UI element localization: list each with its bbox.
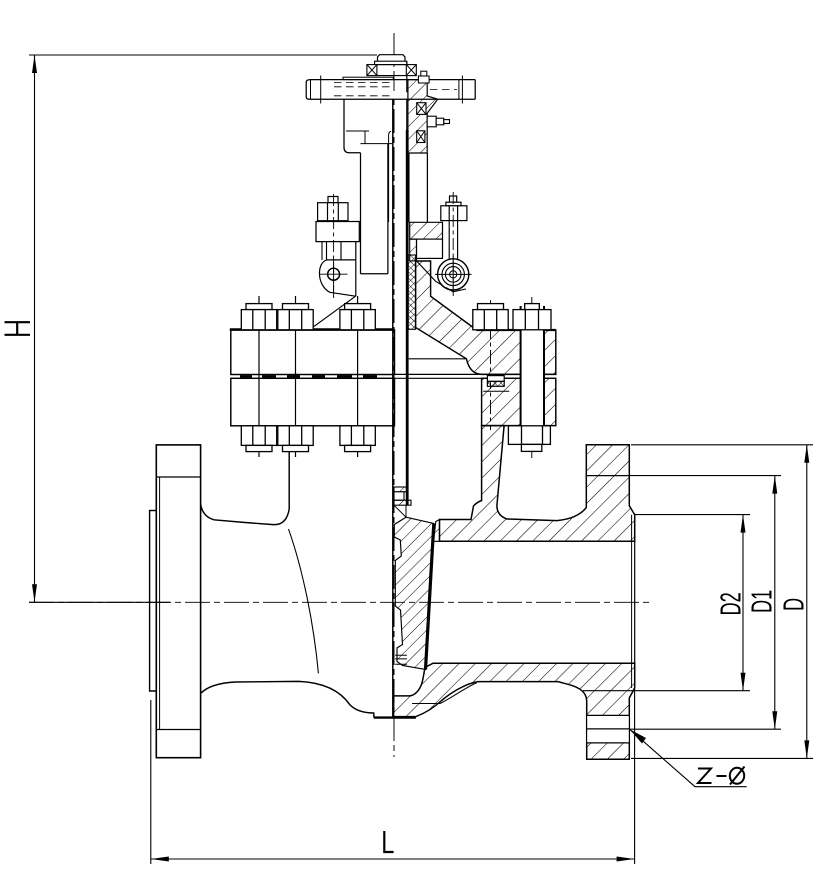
- bolt hole bands lower flange: [587, 715, 629, 743]
- bonnet section (hatched): [416, 261, 556, 374]
- bonnet flange bold top edge: [230, 328, 395, 331]
- bonnet flange left (exterior): [231, 330, 395, 375]
- bolt centerline right front stud: [490, 300, 492, 430]
- yoke top plate: [306, 76, 475, 104]
- arrowheads D2: [741, 515, 746, 533]
- bonnet recess line: [409, 358, 467, 360]
- bottom nuts row c357: [340, 426, 375, 446]
- small stud+nut on yoke top: [418, 71, 429, 83]
- packing stack (x-hatch): [408, 255, 415, 329]
- label Z-dia with leader: [630, 729, 747, 787]
- gland follower white: [417, 239, 443, 258]
- hex nut top row c295: [283, 304, 309, 310]
- stem nut cap top: [378, 55, 406, 62]
- bottom nuts row c259: [241, 426, 276, 446]
- yoke leg right (section side): [426, 153, 428, 222]
- dimension D2 extension lines: [635, 514, 750, 516]
- body hub bottom: [201, 681, 394, 717]
- dimension L line: [151, 858, 635, 860]
- dimension H extension line bottom (centerline extension): [29, 601, 170, 603]
- body flange right (hatched): [482, 378, 556, 425]
- yoke body below plate left: [344, 99, 361, 153]
- hex nut top row right c490.5 (front): [478, 304, 504, 310]
- body neck + upper pipe wall + outlet flange upper (hatched): [440, 426, 635, 542]
- arrowhead Z-leader: [630, 729, 647, 743]
- dimension D1 line: [774, 476, 776, 730]
- dimension H line: [34, 55, 36, 602]
- hex nut top row c259: [241, 304, 551, 452]
- yoke head column section (hatched): [408, 80, 438, 153]
- stem left edge / section edge line: [392, 99, 394, 717]
- dimension H extension line top: [29, 54, 377, 56]
- wedge right edge heavy: [426, 524, 434, 670]
- bottom nuts row c295: [278, 426, 313, 446]
- grease fitting: [427, 116, 449, 127]
- right lug bottom tail: [446, 288, 466, 292]
- bearing box left (X): [367, 65, 377, 76]
- eyebolt centerlines: [333, 194, 335, 298]
- left eye bolt: stud tip, nut: [318, 197, 348, 221]
- boss strip on plate: [343, 77, 393, 79]
- inlet flange chamfer lines: [156, 476, 200, 478]
- dimension D extension lines: [631, 444, 813, 446]
- body flange left (exterior): [231, 378, 395, 426]
- bolt centerline right stud: [531, 297, 533, 458]
- gland lip diagonal: [417, 261, 447, 288]
- arrowheads H: [32, 55, 37, 73]
- cap lip: [375, 61, 407, 64]
- arrowheads D1: [772, 476, 777, 494]
- inlet flange plate: [156, 445, 200, 758]
- right eye (pivot boss): [438, 259, 469, 290]
- gasket dark dashes in gap: [240, 375, 377, 378]
- spot face step under gasket: [483, 390, 509, 392]
- svg-text:D1: D1: [746, 590, 778, 613]
- wedge (gate disc, hatched): [394, 517, 434, 669]
- stuffing box left silhouette: [321, 242, 323, 260]
- body bottom + lower pipe wall + outlet flange lower (hatched): [394, 663, 635, 759]
- bolt hole line upper flange: [587, 475, 629, 477]
- joint gap lines right: [395, 373, 556, 375]
- svg-text:D2: D2: [715, 592, 747, 615]
- centerline vertical (stem axis): [393, 33, 395, 757]
- bottom pad heavy line: [374, 716, 416, 718]
- gland flange section (hatched): [410, 222, 443, 239]
- backseat bushing steps: [394, 487, 411, 517]
- dimension D1 extension lines: [629, 475, 781, 477]
- hex nut top row right c532 (sectioned stud): [525, 304, 540, 310]
- label H (rotated): [5, 322, 31, 335]
- stem right edge thick: [406, 130, 409, 505]
- left eye bolt shank: [327, 242, 342, 260]
- stem tick above gland: [389, 132, 391, 223]
- gland left strip (hatched): [410, 239, 417, 261]
- bearing boxes in section: [417, 103, 426, 115]
- bottom nut right c532: [508, 426, 550, 445]
- bonnet flange top bold right: [477, 329, 556, 331]
- seat bottom steps: [395, 655, 407, 664]
- bore bottom line: [437, 662, 635, 664]
- seat ring right of wedge: [434, 520, 440, 542]
- gasket block (section): [487, 376, 504, 382]
- left gland lug + pivot: [319, 242, 355, 297]
- right eye bolt: stud, cap, nut: [441, 196, 467, 221]
- stud lines left row: [258, 296, 260, 457]
- stud column sectioned (white): [521, 308, 544, 428]
- label L: [384, 831, 393, 852]
- gland bar left (exterior): [316, 222, 359, 242]
- body belly curve: [289, 529, 319, 673]
- hex nut top row c357: [345, 304, 371, 310]
- inlet flange raised face: [150, 511, 157, 692]
- arrowheads D: [804, 445, 809, 463]
- dimension D2 line: [742, 515, 744, 691]
- stem nut body between bearings: [377, 65, 406, 76]
- body hub top: [201, 452, 290, 525]
- sump contour line inside body bottom: [412, 683, 477, 704]
- dimension L extension lines: [150, 700, 152, 864]
- raised face lines outlet flange: [631, 515, 633, 688]
- yoke legs left: [360, 153, 362, 274]
- stem right edge thin top: [406, 61, 408, 130]
- svg-text:D: D: [778, 598, 810, 611]
- hidden dashes in plate: [334, 83, 457, 96]
- right eye bolt shank: [449, 221, 457, 262]
- bearing box right (X): [406, 65, 416, 76]
- dimension D line: [806, 445, 808, 759]
- centerline horizontal (valve axis): [29, 601, 652, 603]
- bonnet cone silhouette left: [310, 296, 356, 329]
- arrowheads L: [151, 857, 169, 862]
